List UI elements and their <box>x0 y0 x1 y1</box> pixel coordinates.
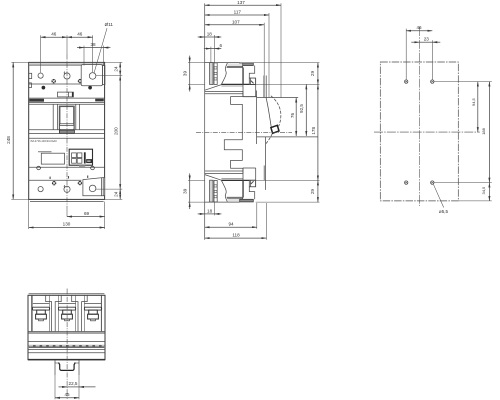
svg-text:23: 23 <box>424 37 430 42</box>
top shaded band <box>29 63 104 65</box>
bottom under-stud box <box>243 168 256 180</box>
dia 5.5 leader <box>433 184 443 207</box>
clip circle b <box>78 79 82 83</box>
base line2 <box>28 341 105 343</box>
right dim extensions <box>253 62 319 64</box>
clip circle c <box>52 181 56 185</box>
svg-text:29: 29 <box>310 189 315 195</box>
cell 3 terminal <box>84 295 101 331</box>
dim 6 <box>211 48 214 50</box>
cell 2 terminal <box>58 295 75 331</box>
tab extension lines <box>54 375 56 399</box>
hole bottom left <box>405 181 408 184</box>
svg-text:94,5: 94,5 <box>471 97 476 106</box>
front cover step profile <box>224 91 243 173</box>
bottom view body outline <box>28 295 105 359</box>
mounting plate top <box>210 63 213 85</box>
screw dot right <box>88 86 92 90</box>
rating squares <box>72 153 77 158</box>
top stud flange <box>221 83 255 85</box>
svg-text:130: 130 <box>63 222 71 227</box>
bottom thick edge <box>28 359 105 361</box>
column lines <box>52 104 54 130</box>
dim 107 <box>205 24 265 26</box>
svg-text:3VL2716-1DC33-0AA0: 3VL2716-1DC33-0AA0 <box>30 139 57 143</box>
bottom stud flange <box>221 179 255 181</box>
dark block <box>86 159 92 163</box>
tab notch <box>59 363 76 371</box>
pole 2 terminal circle <box>64 73 70 79</box>
dim 29 top <box>317 63 319 85</box>
top stud left curve <box>221 63 227 84</box>
clip circle a <box>52 79 56 83</box>
top-right terminal pad <box>81 65 102 86</box>
svg-text:178: 178 <box>311 127 316 135</box>
handle arc <box>271 96 281 126</box>
front view body outline <box>29 62 105 199</box>
mid panel bottom line <box>29 129 105 131</box>
case top lines <box>205 90 243 92</box>
svg-text:Ø11: Ø11 <box>105 22 114 27</box>
handle frame <box>59 106 74 130</box>
type block right <box>95 99 104 102</box>
svg-text:69: 69 <box>84 211 90 216</box>
under-stud box top <box>243 84 256 96</box>
top stud right steps <box>249 66 255 85</box>
svg-text:38: 38 <box>90 42 96 47</box>
dim 18 top <box>205 36 215 38</box>
dim 46 rear <box>406 30 432 32</box>
dim 23 rear <box>419 41 432 43</box>
bottom surface line <box>205 201 240 203</box>
screw circle left <box>37 166 41 170</box>
rear horizontal centerline <box>374 131 480 133</box>
handle knob <box>271 125 279 133</box>
pole 1 terminal circle <box>38 73 43 78</box>
hole top right <box>431 80 434 83</box>
svg-text:39: 39 <box>183 188 188 194</box>
tick marks <box>49 177 51 179</box>
accessory box right <box>257 136 318 138</box>
screw dot left <box>42 86 46 90</box>
lower cover line 1 <box>29 133 105 135</box>
terminal zone bottom line <box>29 83 82 85</box>
dim 117 <box>205 14 269 16</box>
terminal plate bottom gray <box>240 199 254 202</box>
centerline front <box>66 55 68 208</box>
dim 69 <box>66 208 68 217</box>
top stud verticals <box>242 63 244 84</box>
toggle cap <box>59 130 74 133</box>
svg-text:200: 200 <box>114 127 119 135</box>
dim 137 <box>205 4 281 6</box>
svg-text:18: 18 <box>207 32 213 37</box>
dim 130 <box>28 199 30 229</box>
svg-text:107: 107 <box>232 19 240 24</box>
cover front edge <box>256 91 258 145</box>
dim 118 <box>205 237 267 239</box>
base line3 <box>28 348 105 350</box>
bottom dim extensions <box>213 202 215 215</box>
dim 92.5 <box>305 84 307 136</box>
left edge clip 2 <box>29 83 32 88</box>
cover face double line <box>263 76 265 98</box>
terminal plate top gray <box>240 63 254 66</box>
svg-text:ø5,5: ø5,5 <box>439 209 449 214</box>
dim 22.5 <box>67 386 79 388</box>
pole 5 terminal circle <box>64 186 70 192</box>
svg-text:24: 24 <box>114 191 119 197</box>
svg-text:24: 24 <box>114 66 119 72</box>
bottom stud left curve <box>221 180 227 201</box>
dim 34.5 <box>488 183 490 201</box>
svg-text:94: 94 <box>228 222 234 227</box>
side dim extensions top <box>263 23 265 98</box>
bottom stud verticals <box>242 180 244 201</box>
svg-text:45: 45 <box>64 392 70 397</box>
mounting plate bottom <box>210 180 213 202</box>
mid panel top line <box>29 103 105 105</box>
bottom stud horizontals <box>227 196 244 198</box>
case bottom lines <box>205 170 243 172</box>
dim 248 <box>11 61 28 63</box>
cell 1 terminal <box>32 295 49 331</box>
dim 18 bottom <box>205 213 215 215</box>
right dim extensions <box>105 61 123 63</box>
svg-text:92,5: 92,5 <box>299 104 304 113</box>
top stud shading <box>228 63 243 66</box>
lower cover line 3 <box>29 166 105 168</box>
back mounting line <box>204 3 206 239</box>
pole 4 terminal circle <box>38 187 43 192</box>
svg-text:34,5: 34,5 <box>481 186 486 195</box>
svg-text:39: 39 <box>183 71 188 77</box>
dim 29 bottom <box>317 180 319 202</box>
right channel <box>101 295 103 331</box>
dim 178 <box>317 84 319 180</box>
svg-text:18: 18 <box>207 209 213 214</box>
bottom stud right steps <box>249 180 255 199</box>
small text line <box>38 151 52 152</box>
svg-text:117: 117 <box>234 10 242 15</box>
top surface line <box>205 62 240 64</box>
rail tab <box>54 360 56 375</box>
dim 39 bottom left <box>188 179 205 181</box>
top stud horizontals <box>227 66 243 68</box>
chimney right <box>72 295 88 331</box>
svg-text:118: 118 <box>232 232 240 237</box>
terminal cells bottom line <box>28 331 105 333</box>
svg-text:46: 46 <box>51 31 57 36</box>
dim 188 <box>488 82 490 183</box>
dim 94.5 <box>477 82 479 133</box>
left channel <box>31 295 33 331</box>
toggle knob <box>60 124 75 130</box>
dim 94 <box>205 226 257 228</box>
dim 38 <box>84 47 103 49</box>
handle phantom top <box>257 97 299 99</box>
side centerline <box>196 131 292 133</box>
label strip <box>29 97 105 99</box>
svg-text:76: 76 <box>290 113 295 119</box>
dim 76 <box>295 98 297 137</box>
dim 46 left <box>41 36 67 38</box>
lower-right terminal pad <box>83 177 105 195</box>
label field box <box>41 153 64 164</box>
bottom stud shading <box>228 198 243 201</box>
dim 24 top <box>119 62 121 75</box>
hole bottom right <box>431 181 434 184</box>
svg-text:188: 188 <box>481 127 486 134</box>
rear right connectors <box>434 81 492 83</box>
svg-text:46: 46 <box>416 25 422 30</box>
dim 200 <box>119 76 121 190</box>
dim 24 bottom <box>119 189 121 199</box>
hole top left <box>405 80 408 83</box>
clip circle d <box>78 181 82 185</box>
pole 6 terminal circle <box>89 185 96 192</box>
rear plate phantom outline <box>380 62 458 201</box>
dim 39 top left <box>188 62 205 64</box>
lower terminal zone top line <box>29 179 82 181</box>
top double edge <box>29 293 105 295</box>
gray tab <box>79 165 85 167</box>
left edge clip 1 <box>29 73 32 78</box>
hole leader lines up <box>405 29 407 80</box>
top clamp block <box>249 78 255 84</box>
dark bar <box>84 152 86 163</box>
chimney left <box>46 295 62 331</box>
pole 3 terminal circle <box>89 73 96 80</box>
svg-text:6: 6 <box>220 43 223 48</box>
lower cover line 2 <box>29 137 105 139</box>
bottom view centerline <box>66 289 68 400</box>
svg-text:22,5: 22,5 <box>69 381 78 386</box>
siemens logo block <box>29 99 44 102</box>
svg-text:248: 248 <box>6 136 11 144</box>
svg-text:29: 29 <box>310 71 315 77</box>
base line <box>30 201 104 203</box>
svg-text:137: 137 <box>237 0 245 5</box>
screw circle right <box>91 166 95 170</box>
svg-text:46: 46 <box>77 31 83 36</box>
front dim extension lines <box>40 35 42 72</box>
dim 45 <box>55 397 79 399</box>
bottom clamp block <box>249 180 255 186</box>
small window <box>58 92 74 97</box>
dim 46 right <box>67 36 93 38</box>
dark rail strip <box>29 345 104 348</box>
rating plate block <box>69 149 92 165</box>
rear vertical centerline <box>418 27 420 206</box>
